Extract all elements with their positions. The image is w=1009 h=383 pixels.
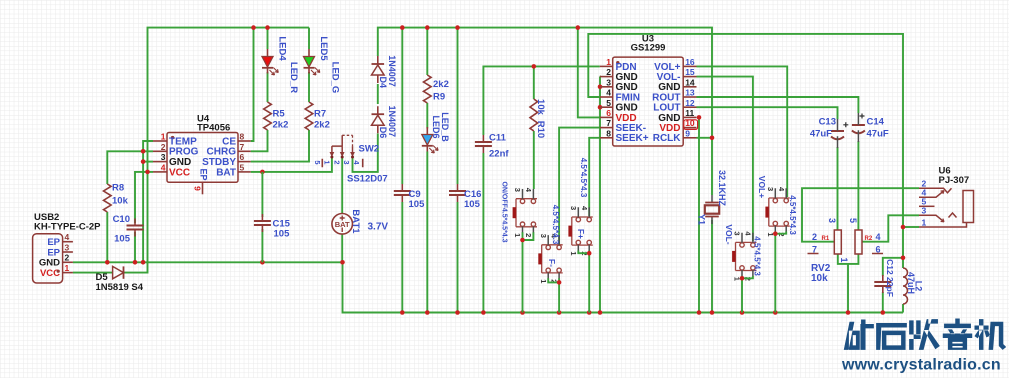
svg-text:1: 1 — [569, 251, 578, 255]
wire VDD pin6 to rail A — [578, 28, 600, 118]
svg-text:3: 3 — [606, 77, 611, 87]
svg-text:3: 3 — [827, 218, 837, 223]
svg-text:5: 5 — [848, 218, 858, 223]
junction (427.3,312.5) — [425, 310, 430, 315]
svg-text:SW2: SW2 — [359, 144, 380, 155]
wire GND pin3 — [143, 161, 153, 163]
svg-text:3: 3 — [513, 188, 522, 192]
junction (699,312.5) — [697, 310, 702, 315]
crystal Y1 32.1KHZ — [711, 195, 713, 224]
svg-text:2k2: 2k2 — [273, 120, 289, 131]
wire C16 column — [457, 28, 459, 184]
resistor R7 2k2 — [305, 102, 313, 130]
junction (342.5,262.3) — [340, 260, 345, 265]
capacitor C14 47uF — [852, 124, 865, 126]
wire LED4 column — [267, 28, 269, 49]
svg-text:LED5: LED5 — [318, 36, 329, 61]
svg-text:8: 8 — [240, 132, 245, 142]
svg-text:6: 6 — [606, 108, 611, 118]
svg-text:1: 1 — [539, 279, 548, 283]
svg-text:3: 3 — [922, 206, 927, 216]
svg-text:BAT: BAT — [335, 220, 350, 229]
svg-text:EP: EP — [198, 168, 208, 180]
junction (107.3,262.3) — [105, 260, 110, 265]
svg-text:1: 1 — [322, 160, 331, 164]
svg-text:47uF: 47uF — [867, 129, 889, 140]
svg-text:4.5*4.5*4.3: 4.5*4.5*4.3 — [788, 195, 797, 235]
svg-text:16: 16 — [685, 57, 695, 67]
svg-text:BAT: BAT — [216, 167, 236, 178]
wire RCLK to Y1 — [697, 137, 713, 139]
svg-text:4: 4 — [161, 163, 166, 173]
junction (600,312.5) — [598, 310, 603, 315]
wire RV2 bottom pin1 — [838, 254, 859, 264]
svg-text:10k: 10k — [112, 196, 129, 207]
wire FMIN rail B to L2 — [588, 34, 903, 268]
svg-text:1: 1 — [606, 57, 611, 67]
svg-text:7: 7 — [606, 118, 611, 128]
wire VOL+ pin16 to button — [697, 66, 788, 197]
svg-text:LED_G: LED_G — [330, 62, 341, 94]
svg-text:1: 1 — [65, 263, 70, 273]
svg-text:105: 105 — [464, 199, 481, 210]
pin 9 EP pad U4 — [202, 182, 204, 194]
wire GND pin11 down — [698, 117, 700, 312]
wire USB VCC to D5 anode — [73, 272, 113, 274]
wire U6 pin1 to antenna net — [903, 226, 919, 228]
svg-text:9: 9 — [192, 186, 202, 191]
wire C15 to GND — [261, 229, 263, 262]
pin1 marker U3 — [616, 61, 619, 64]
svg-text:1: 1 — [161, 132, 166, 142]
wire LOUT to C13 — [697, 107, 838, 119]
svg-text:5: 5 — [313, 160, 322, 164]
junction (135,262.3) — [133, 260, 138, 265]
junction (882.8,312.5) — [881, 310, 886, 315]
wire VDD rail A — [378, 28, 712, 195]
svg-text:4.5*4.5*4.3: 4.5*4.5*4.3 — [752, 236, 761, 276]
svg-text:ON/OFF4.5*4.5*4.3: ON/OFF4.5*4.5*4.3 — [500, 181, 507, 242]
svg-text:3: 3 — [569, 206, 578, 210]
IC U3 GS1299 — [613, 57, 684, 146]
wire Y1 bottom to GND bus — [711, 220, 713, 313]
svg-text:1N5819 S4: 1N5819 S4 — [96, 282, 144, 293]
svg-text:15: 15 — [685, 67, 695, 77]
wire VOL- pin15 to button — [697, 77, 753, 241]
svg-text:6: 6 — [876, 245, 881, 255]
junction (712,137.8) — [710, 136, 715, 141]
wire SW2 pin3 to D6 — [353, 134, 378, 172]
wire ROUT to C14 — [697, 97, 859, 113]
wire PDN net / C11 — [483, 66, 599, 135]
button F+ — [576, 217, 580, 221]
svg-text:1N4007: 1N4007 — [387, 106, 397, 138]
wire R10 column — [533, 66, 535, 99]
svg-text:KH-TYPE-C-2P: KH-TYPE-C-2P — [34, 222, 101, 233]
pin1 marker USB — [57, 270, 60, 273]
wire GND rail from USB — [73, 262, 903, 312]
diode D6 1N4007 — [372, 113, 385, 115]
resistor R8 10k — [104, 184, 112, 212]
svg-text:R9: R9 — [433, 92, 445, 103]
wire LED5 column — [308, 28, 310, 49]
svg-text:SEEK+: SEEK+ — [616, 133, 649, 144]
wire D6 top to D4 — [377, 84, 379, 104]
junction (903,257.8) — [901, 255, 906, 260]
junction (848,312.5) — [846, 310, 851, 315]
svg-text:7: 7 — [240, 142, 245, 152]
switch SW2 SS12D07 — [332, 135, 342, 146]
wire L2 bottom to bus — [902, 304, 904, 313]
capacitor C10 105 — [127, 226, 144, 230]
SW2 pin contact dot x=352.5 — [351, 156, 354, 159]
button F- — [546, 245, 550, 249]
svg-text:3: 3 — [65, 242, 70, 252]
svg-text:4.5*4.5*4.3: 4.5*4.5*4.3 — [551, 205, 560, 245]
svg-text:4: 4 — [876, 232, 881, 242]
wire RV2 wiper to U6 pin2 — [802, 188, 919, 242]
svg-text:VOL+: VOL+ — [757, 176, 767, 198]
capacitor C16 105 — [449, 191, 466, 195]
junction (402.3,27.6) — [400, 25, 405, 30]
svg-text:3: 3 — [161, 152, 166, 162]
wire VCC top-left rail — [124, 28, 310, 273]
svg-text:3: 3 — [539, 234, 548, 238]
svg-text:3: 3 — [342, 160, 351, 164]
svg-text:47uF: 47uF — [810, 129, 832, 140]
wire BAT to C15 — [261, 172, 263, 217]
LED LED5 green — [308, 49, 310, 57]
svg-text:12: 12 — [685, 98, 695, 108]
svg-text:R8: R8 — [112, 183, 124, 194]
svg-text:7: 7 — [812, 245, 817, 255]
wire R8 to GND — [106, 212, 108, 262]
LED LED6 blue — [426, 127, 428, 135]
button VOL+ — [773, 198, 777, 202]
SW2 pin contact dot x=331.9 — [330, 156, 333, 159]
junction (577.8,27.6) — [576, 25, 581, 30]
svg-text:32.1KHZ: 32.1KHZ — [717, 170, 727, 207]
svg-text:1: 1 — [513, 233, 522, 237]
wire U3 GND left — [599, 77, 601, 313]
svg-text:2: 2 — [524, 233, 533, 237]
junction (253.5,27.6) — [251, 25, 256, 30]
IC U4 TP4056 — [167, 133, 238, 183]
wire R9/LED6 column — [426, 28, 428, 75]
svg-text:10k: 10k — [535, 99, 546, 116]
junction (775.3,312.5) — [773, 310, 778, 315]
svg-text:2: 2 — [332, 160, 341, 164]
junction (143.1,151.3) — [141, 149, 146, 154]
inductor L2 47uH — [903, 268, 908, 304]
svg-text:8: 8 — [606, 128, 611, 138]
svg-text:10k: 10k — [811, 273, 828, 284]
svg-text:4: 4 — [65, 232, 70, 242]
svg-text:RCLK: RCLK — [653, 133, 682, 144]
svg-text:105: 105 — [274, 228, 291, 239]
battery BAT1 3.7V — [332, 214, 353, 235]
svg-text:2: 2 — [812, 232, 817, 242]
svg-text:R5: R5 — [273, 109, 286, 120]
svg-text:11: 11 — [685, 108, 694, 118]
logo text (hand-drawn CJK strokes) — [844, 319, 874, 349]
svg-text:4.5*4.5*4.3: 4.5*4.5*4.3 — [579, 158, 588, 198]
svg-text:3.7V: 3.7V — [368, 222, 389, 233]
svg-text:www.crystalradio.cn: www.crystalradio.cn — [841, 357, 1001, 374]
svg-text:D4: D4 — [378, 77, 388, 89]
capacitor C12 22pF — [874, 282, 891, 286]
svg-text:VCC: VCC — [40, 268, 60, 279]
svg-text:TP4056: TP4056 — [197, 123, 230, 134]
svg-text:LED4: LED4 — [277, 36, 288, 61]
capacitor C11 22nf — [475, 142, 492, 146]
wire SW2 pin2 to BAT1 — [341, 158, 343, 213]
diode D4 1N4007 — [372, 63, 385, 65]
wire STDBY to R7 — [251, 130, 309, 162]
button ON/OFF — [520, 199, 524, 203]
svg-text:2k2: 2k2 — [314, 120, 330, 131]
svg-text:6: 6 — [240, 152, 245, 162]
junction (742,312.5) — [740, 310, 745, 315]
wire PROG to R8 — [107, 151, 153, 184]
diode D5 1N5819 — [113, 266, 124, 278]
junction (262.4,171.9) — [260, 170, 265, 175]
svg-text:LED_B: LED_B — [440, 112, 450, 142]
wire TEMP to GND — [143, 141, 153, 262]
svg-text:F-: F- — [547, 259, 557, 267]
svg-text:5: 5 — [606, 98, 611, 108]
junction (589.2,312.5) — [587, 310, 592, 315]
pin1 marker U4 — [171, 136, 174, 139]
svg-text:PJ-307: PJ-307 — [939, 175, 970, 186]
potentiometer RV2 10k — [834, 230, 841, 254]
svg-text:105: 105 — [409, 199, 426, 210]
junction (559.1,312.5) — [557, 310, 562, 315]
connector USB2 KH-TYPE-C-2P — [33, 234, 63, 283]
junction (143.1,161.6) — [141, 159, 146, 164]
resistor R9 2k2 — [423, 75, 431, 103]
svg-text:105: 105 — [114, 234, 131, 245]
junction (143.1,262.3) — [141, 260, 146, 265]
junction (903,227) — [901, 225, 906, 230]
wire BAT pin5 to SW2 — [251, 158, 332, 172]
junction (600,86.8) — [598, 85, 603, 90]
svg-text:Y1: Y1 — [696, 214, 706, 225]
svg-text:1: 1 — [839, 257, 849, 262]
svg-text:VCC: VCC — [169, 167, 190, 178]
wire C10 bottom — [134, 232, 136, 262]
svg-text:R1: R1 — [822, 236, 830, 242]
wire SEEK- to F- — [559, 128, 600, 244]
svg-text:1N4007: 1N4007 — [387, 55, 397, 87]
wire C12 branch — [883, 258, 903, 276]
svg-text:C14: C14 — [867, 117, 885, 128]
svg-text:F+: F+ — [576, 229, 586, 239]
junction (600,107.2) — [598, 105, 603, 110]
junction (147.5,171.9) — [145, 170, 150, 175]
LED LED4 red — [267, 49, 269, 57]
svg-text:GS1299: GS1299 — [631, 43, 666, 54]
capacitor C15 105 — [254, 221, 271, 225]
wire CHRG to R5 — [251, 130, 268, 151]
svg-text:LED_R: LED_R — [288, 62, 299, 93]
svg-text:2: 2 — [606, 67, 611, 77]
junction (267.5,27.6) — [265, 25, 270, 30]
svg-text:1: 1 — [922, 217, 927, 227]
junction (483.4,312.5) — [481, 310, 486, 315]
wire C14 to RV2 pin5 — [857, 141, 859, 230]
svg-text:L2: L2 — [913, 281, 923, 292]
capacitor C9 105 — [394, 191, 411, 195]
svg-text:SS12D07: SS12D07 — [347, 173, 388, 184]
junction (427.3,27.6) — [425, 25, 430, 30]
svg-text:2: 2 — [161, 142, 166, 152]
junction (457.5,312.5) — [455, 310, 460, 315]
junction (712,312.5) — [710, 310, 715, 315]
svg-text:R10: R10 — [535, 121, 546, 138]
junction (262.4,262.3) — [260, 260, 265, 265]
wire VCC pin4 to C10 — [135, 172, 153, 223]
svg-text:C11: C11 — [489, 133, 507, 144]
svg-text:2: 2 — [65, 253, 70, 263]
svg-text:C10: C10 — [113, 214, 130, 225]
svg-text:C12 22pF: C12 22pF — [885, 259, 895, 297]
svg-text:LED6: LED6 — [431, 115, 441, 138]
wire RV2 pin4 to U6 pin3 — [862, 215, 919, 241]
SW2 pin contact dot x=342.2 — [341, 156, 344, 159]
junction (699,117.4) — [697, 115, 702, 120]
svg-text:R7: R7 — [314, 109, 326, 120]
svg-text:2k2: 2k2 — [433, 79, 449, 90]
svg-text:4: 4 — [606, 88, 611, 98]
svg-text:14: 14 — [685, 77, 695, 87]
wire CE to VCC rail — [251, 28, 254, 141]
svg-text:22nf: 22nf — [489, 149, 509, 160]
svg-text:13: 13 — [685, 88, 695, 98]
svg-text:C13: C13 — [819, 117, 836, 128]
wire SEEK+ to F+ — [589, 138, 600, 216]
svg-text:BAT1: BAT1 — [350, 209, 361, 234]
svg-text:D6: D6 — [378, 127, 388, 139]
capacitor C13 47uF — [831, 130, 844, 132]
svg-text:VOL-: VOL- — [724, 224, 734, 244]
resistor R5 2k2 — [264, 102, 272, 130]
wire C13 to RV2 pin3 — [837, 147, 839, 230]
resistor R10 10k — [530, 99, 538, 131]
junction (402.3,312.5) — [400, 310, 405, 315]
junction (457.5,27.6) — [455, 25, 460, 30]
svg-text:R2: R2 — [865, 236, 873, 242]
junction (533.8,66.4) — [532, 64, 537, 69]
svg-text:5: 5 — [240, 163, 245, 173]
button VOL- — [740, 243, 744, 247]
junction (522.5,312.5) — [520, 310, 525, 315]
wire C9 column — [401, 28, 403, 184]
wire BAT1 to GND — [341, 234, 343, 262]
